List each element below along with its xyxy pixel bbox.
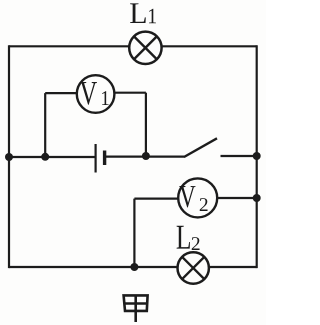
wire V1 right branch vertical xyxy=(145,93,147,156)
wire V1 left branch horizontal xyxy=(45,92,77,94)
node junction left wire / middle wire xyxy=(5,153,13,161)
wire V1 left branch vertical xyxy=(44,93,46,157)
lamp L2 xyxy=(178,252,209,283)
svg-text:V: V xyxy=(79,76,97,113)
label L2 xyxy=(176,218,201,257)
wire V2 left branch horizontal xyxy=(134,198,179,200)
wire top-left to L1 xyxy=(9,45,129,47)
svg-text:L: L xyxy=(129,0,147,30)
voltmeter U1 V1 xyxy=(77,75,115,113)
wire right vertical xyxy=(256,45,258,268)
svg-text:V: V xyxy=(179,179,196,215)
wire V2 left branch vertical xyxy=(133,199,135,267)
wire V2 right branch xyxy=(216,197,256,199)
voltmeter U2 V2 xyxy=(178,178,217,217)
svg-text:1: 1 xyxy=(147,3,157,28)
node junction V2 right branch / right wire xyxy=(253,194,261,202)
wire middle-left (left wire to battery) xyxy=(9,156,95,158)
svg-text:1: 1 xyxy=(100,87,109,110)
svg-text:L: L xyxy=(176,218,192,257)
wire L2 to bottom-right corner xyxy=(209,266,257,268)
node junction switch contact / right wire xyxy=(253,152,261,160)
wire battery to switch xyxy=(106,156,185,158)
node junction V1 right branch xyxy=(142,152,150,160)
node junction V2 left branch / bottom wire xyxy=(130,263,138,271)
battery cell long plate xyxy=(94,144,96,173)
node junction V1 left branch xyxy=(41,153,49,161)
wire switch contact to right wire xyxy=(221,155,257,157)
wire left vertical xyxy=(8,45,10,268)
wire V1 right branch horizontal xyxy=(114,92,146,94)
label L1 xyxy=(129,0,157,30)
wire L1 to top-right corner xyxy=(162,45,257,47)
wire bottom-left to L2 xyxy=(9,266,178,268)
lamp L1 xyxy=(129,32,161,64)
battery cell short plate xyxy=(103,151,106,166)
svg-text:2: 2 xyxy=(199,195,209,216)
caption Jia character xyxy=(124,295,148,322)
switch S blade xyxy=(184,138,217,157)
